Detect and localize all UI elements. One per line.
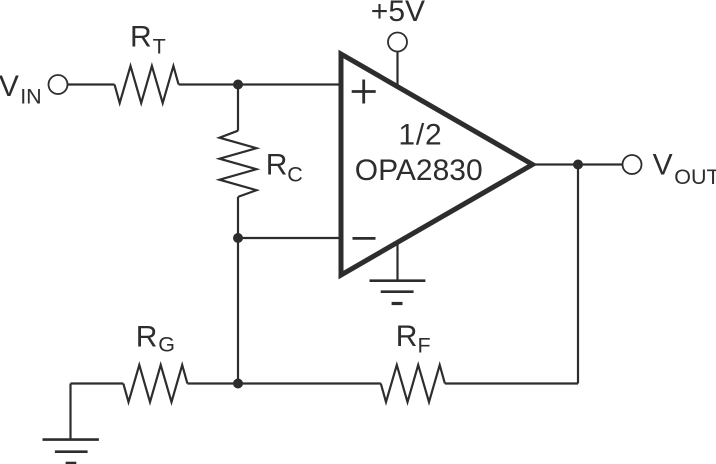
svg-text:+5V: +5V bbox=[371, 0, 425, 28]
svg-text:R: R bbox=[136, 320, 158, 353]
svg-text:R: R bbox=[396, 320, 418, 353]
svg-text:T: T bbox=[153, 35, 166, 59]
svg-text:OUT: OUT bbox=[674, 165, 716, 189]
svg-text:1/2: 1/2 bbox=[398, 118, 442, 151]
svg-text:IN: IN bbox=[20, 85, 42, 109]
svg-text:F: F bbox=[418, 333, 431, 357]
svg-text:R: R bbox=[130, 20, 152, 53]
svg-text:V: V bbox=[653, 149, 673, 182]
svg-text:C: C bbox=[287, 162, 303, 186]
svg-text:R: R bbox=[266, 149, 288, 182]
svg-text:G: G bbox=[158, 333, 175, 357]
svg-text:V: V bbox=[0, 70, 19, 103]
svg-text:OPA2830: OPA2830 bbox=[355, 154, 483, 187]
